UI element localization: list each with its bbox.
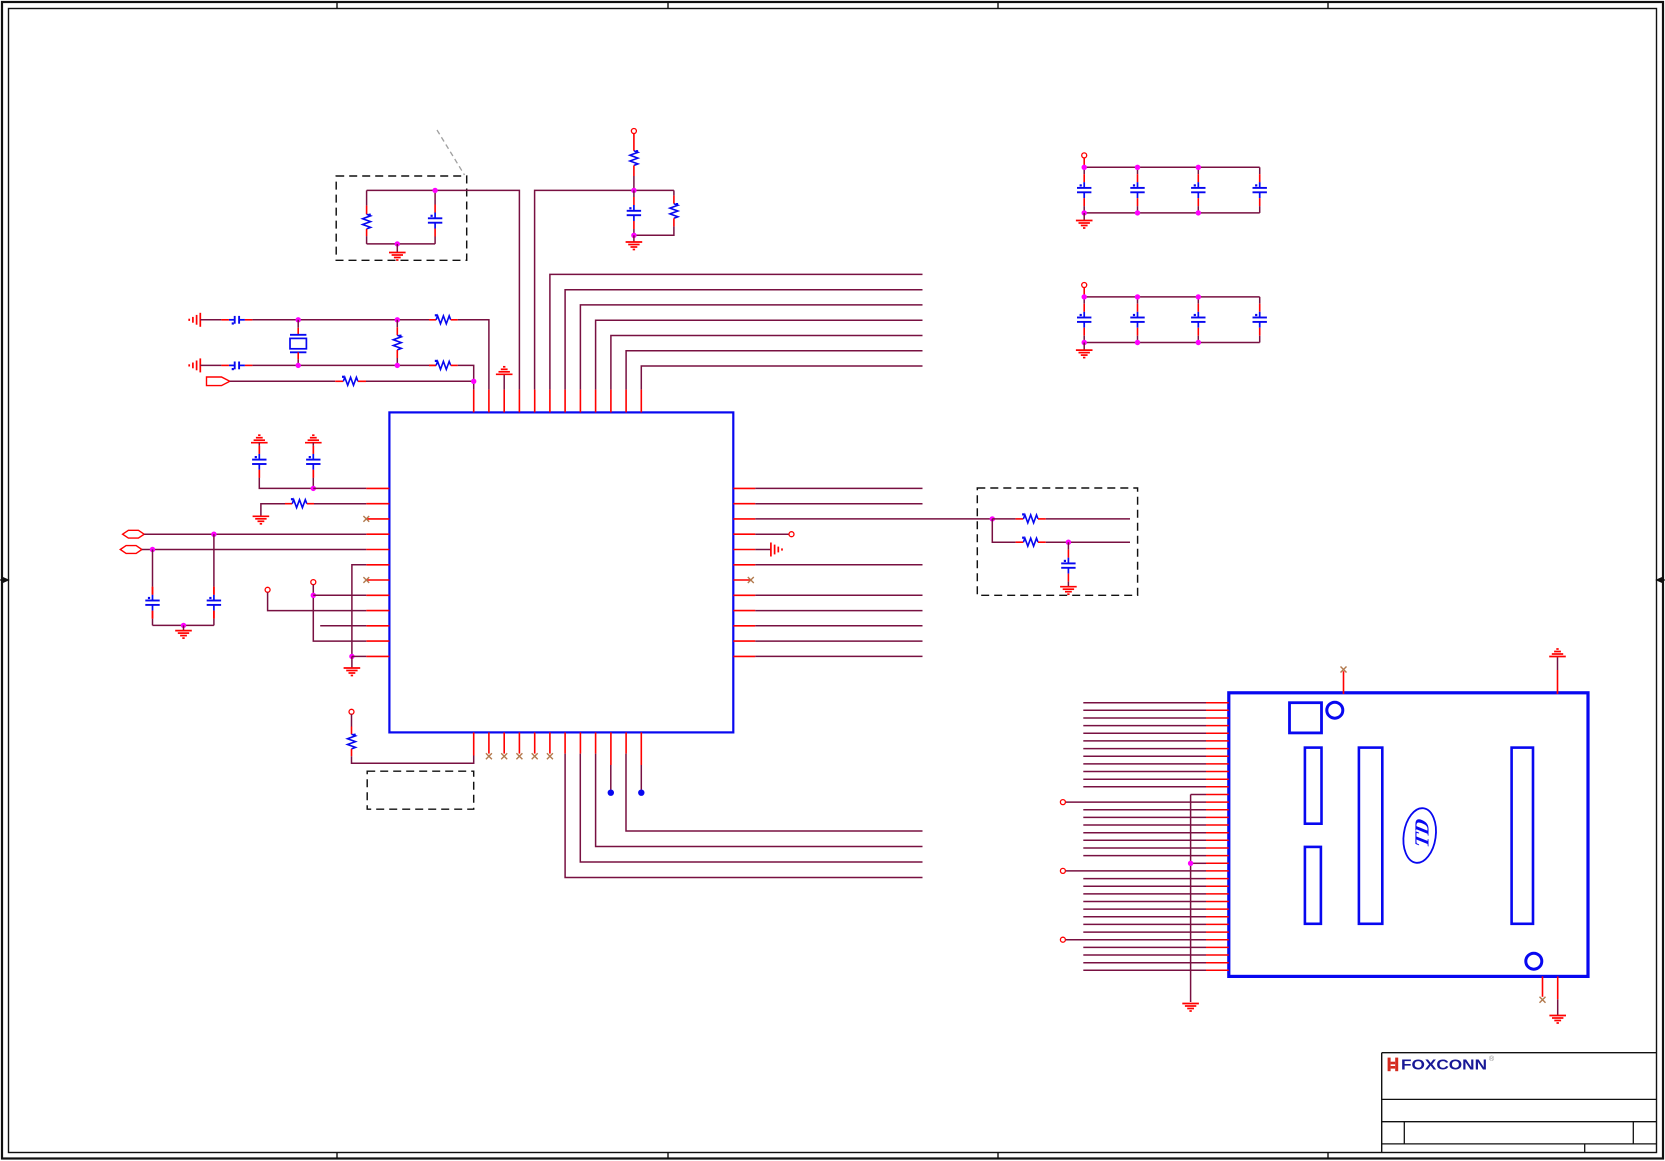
wire net XTAL_OUT row xyxy=(252,364,436,366)
wire pin B11 net xyxy=(626,754,923,831)
wire pin R3 net to DB2 xyxy=(755,518,992,520)
resistor R2 xyxy=(630,133,638,190)
wire pin B8 net xyxy=(580,754,922,862)
ground xyxy=(1060,587,1077,595)
junction caps bottom rail xyxy=(181,623,186,628)
no-connect X pins IC bottom xyxy=(486,753,553,759)
wire cap bank 1 top rail xyxy=(1084,166,1260,168)
capacitor C8 xyxy=(207,534,221,625)
connector J1 xyxy=(1229,693,1588,977)
test point circles connector bus xyxy=(1060,800,1065,943)
junction port P2 row xyxy=(150,547,155,552)
wire pin B9 net xyxy=(596,754,923,847)
junction caps row xyxy=(311,486,316,491)
capacitor C4 xyxy=(200,362,252,371)
off-page port P1 xyxy=(123,530,145,538)
wire junction to pin L8 xyxy=(313,594,366,596)
ground xyxy=(1549,976,1566,1023)
off-page port P2 xyxy=(120,546,142,554)
junction DB2 row B xyxy=(1066,540,1071,545)
wire port P1 to pin L4 xyxy=(144,533,366,535)
no-connect X pins IC left xyxy=(363,516,369,522)
dashed box DB1 xyxy=(336,176,467,260)
wire R11 to pin B1 xyxy=(352,756,474,764)
capacitor C16 xyxy=(1191,297,1205,343)
ground xyxy=(755,543,782,557)
no-connect X pin connector top xyxy=(1341,667,1347,695)
Foxconn logo xyxy=(1388,1055,1495,1074)
wire cap bank 1 bottom rail xyxy=(1084,212,1260,214)
ground xyxy=(1549,649,1566,694)
connector slot B xyxy=(1305,847,1321,924)
wire pin R11 net xyxy=(755,640,922,642)
ground xyxy=(1182,1004,1199,1012)
no-connect X pin connector bottom xyxy=(1540,976,1546,1002)
wire caps bottom rail xyxy=(153,624,214,626)
capacitor C10 xyxy=(1077,167,1091,213)
wire cap bank 2 top rail xyxy=(1084,296,1260,298)
IC U1 bottom pin stubs xyxy=(474,732,642,765)
IC U1 left pin stubs xyxy=(366,488,389,656)
junction DB2 row A xyxy=(990,516,995,521)
wire pin B7 net xyxy=(565,754,922,878)
junction crystal top xyxy=(296,317,301,322)
wire pin R1 net xyxy=(755,487,922,489)
wire net rail (RC to pin T5) xyxy=(535,190,674,389)
wire pin R9 net xyxy=(755,610,922,612)
IC U1 right pin stubs xyxy=(733,488,755,656)
TD logo xyxy=(1400,806,1439,865)
net terminator dot pin B12 xyxy=(638,765,644,796)
junction R4 top xyxy=(395,317,400,322)
wire net VDD rail (box DB1 to pin T4) xyxy=(367,190,520,389)
connector slot D xyxy=(1512,748,1533,924)
ground xyxy=(189,313,200,327)
ground xyxy=(496,367,513,390)
wire pin R10 net xyxy=(755,625,922,627)
resistor R8 xyxy=(261,498,366,516)
wire pin R12 net xyxy=(755,655,922,657)
junction port P1 row xyxy=(211,532,216,537)
wire circle A to pin L9 xyxy=(268,592,367,610)
wire bus vertical to ground xyxy=(1190,795,1192,1003)
power pin (open circle) xyxy=(1082,283,1087,288)
capacitor C11 xyxy=(1130,167,1144,213)
junction row3 xyxy=(471,379,476,384)
wire bus connector J1 xyxy=(1065,703,1229,971)
junctions cap bank 1 xyxy=(1082,165,1202,216)
ground xyxy=(1076,343,1093,358)
callout leader line xyxy=(437,130,465,175)
wire row2 to pin T1 xyxy=(458,365,474,389)
ground xyxy=(305,435,322,446)
test point circle pin R4 xyxy=(755,532,794,537)
resistor R6 xyxy=(429,360,458,370)
wire junction to pin L12 xyxy=(352,655,366,657)
wire row3 to junction xyxy=(366,380,474,382)
resistor R5 xyxy=(429,314,458,324)
ground xyxy=(344,656,361,675)
capacitor C12 xyxy=(1191,167,1205,213)
capacitor C15 xyxy=(1130,297,1144,343)
junction crystal bottom xyxy=(296,363,301,368)
test point circle B xyxy=(311,580,316,585)
wire pin R2 net xyxy=(755,503,922,505)
input port xyxy=(207,377,230,386)
capacitor C5 xyxy=(252,446,313,489)
connector index circle bottom xyxy=(1526,953,1542,969)
ground xyxy=(251,435,268,446)
capacitor C2 xyxy=(627,190,641,235)
svg-text:®: ® xyxy=(1489,1055,1495,1063)
junction on DB1 bottom rail xyxy=(395,241,400,246)
no-connect X pin IC right xyxy=(748,577,754,583)
ground xyxy=(189,358,200,372)
wire port P2 to pin L5 xyxy=(142,549,366,551)
power pin (open circle) xyxy=(631,129,636,134)
power pin (open circle) xyxy=(1082,153,1087,158)
junction RC bottom xyxy=(631,233,636,238)
junction on DB1 rail xyxy=(432,188,437,193)
wire cap bank 2 bottom rail xyxy=(1084,342,1260,344)
wire net to pin L6 xyxy=(352,565,366,657)
wire bus to IC top pins xyxy=(550,274,923,389)
capacitor C14 xyxy=(1077,297,1091,343)
wire box DB1 bottom rail xyxy=(367,243,436,245)
junction R4 bottom xyxy=(395,363,400,368)
junction RC rail xyxy=(631,188,636,193)
ground xyxy=(1076,213,1093,228)
ground xyxy=(253,516,270,524)
IC U1 top pin stubs xyxy=(474,390,642,413)
junction bus vertical xyxy=(1188,861,1193,866)
wire pin R6 net xyxy=(755,564,922,566)
wire caps row to pin L1 xyxy=(313,487,366,489)
connector slot A xyxy=(1305,748,1322,824)
capacitor C1 xyxy=(428,190,442,244)
connector index circle top xyxy=(1327,702,1343,718)
IC U1 xyxy=(389,412,733,732)
junction circle B row (pin L8) xyxy=(311,593,316,598)
svg-text:FOXCONN: FOXCONN xyxy=(1401,1058,1487,1074)
net terminator dot pin B10 xyxy=(608,765,614,796)
wire stub pin L10 xyxy=(320,625,366,627)
resistor R1 xyxy=(363,190,371,244)
wire row1 to pin T2 xyxy=(458,320,489,390)
wire circle B net xyxy=(313,585,366,642)
power pin (open circle) xyxy=(349,709,354,714)
title block xyxy=(1382,1053,1657,1153)
connector key square xyxy=(1290,703,1322,733)
ground xyxy=(626,235,643,249)
wire pin R8 net xyxy=(755,594,922,596)
crystal Y1 xyxy=(290,320,306,366)
resistor R10 xyxy=(1016,537,1130,547)
wire net XTAL_IN row xyxy=(252,319,436,321)
junctions cap bank 2 xyxy=(1082,294,1202,345)
connector slot C xyxy=(1359,748,1382,924)
wire DB2 corner xyxy=(992,519,1015,542)
capacitor C17 xyxy=(1253,297,1267,343)
capacitor C9 xyxy=(1061,542,1075,587)
resistor R4 xyxy=(393,320,401,366)
resistor R7 xyxy=(335,376,366,386)
dashed box DB2 xyxy=(977,488,1137,595)
capacitor C7 xyxy=(145,550,159,626)
resistor R11 xyxy=(348,714,356,756)
junction pin L12 net xyxy=(349,654,354,659)
resistor R9 xyxy=(992,513,1130,523)
ground xyxy=(175,625,192,638)
ground xyxy=(389,244,406,260)
test point circle A xyxy=(265,587,270,592)
dashed box DB3 xyxy=(367,771,474,809)
wire row3 from port xyxy=(230,380,335,382)
capacitor C13 xyxy=(1253,167,1267,213)
resistor R3 xyxy=(634,190,678,235)
capacitor C3 xyxy=(200,316,252,325)
capacitor C6 xyxy=(306,446,320,489)
